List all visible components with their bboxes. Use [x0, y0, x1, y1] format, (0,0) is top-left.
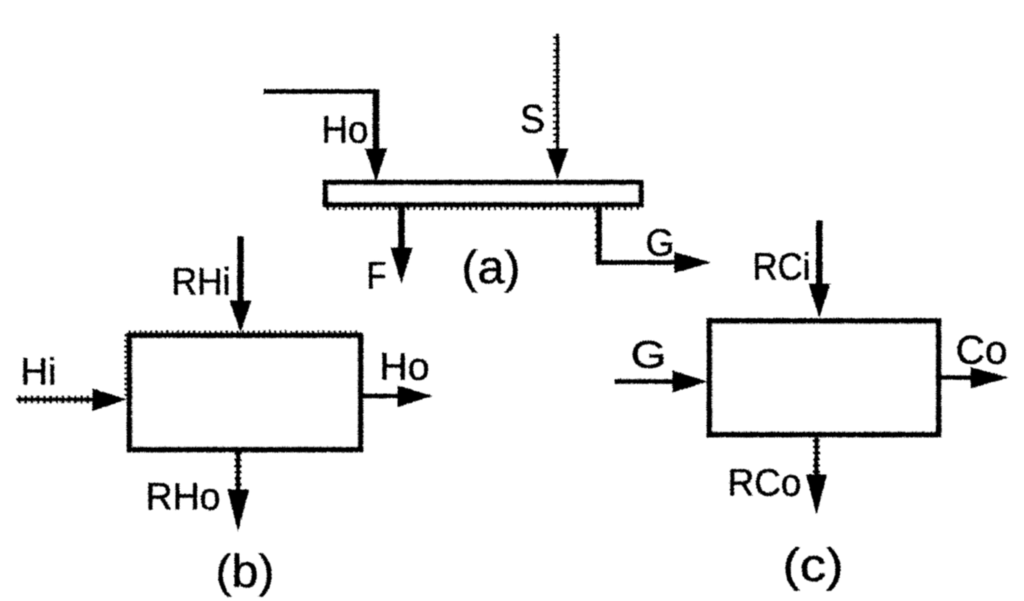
wire RCo texture	[813, 439, 820, 475]
svg-text:RHi: RHi	[171, 261, 230, 303]
arrowhead Co	[970, 367, 1008, 389]
wire G in (c)	[614, 379, 676, 384]
wire G drop texture	[594, 210, 597, 258]
arrowhead G (a)	[674, 252, 711, 273]
arrowhead G in (c)	[672, 370, 707, 392]
wire Hi horizontal	[16, 397, 95, 401]
arrowhead RHo	[227, 489, 249, 532]
svg-text:F: F	[366, 255, 386, 297]
arrowhead F	[390, 247, 412, 283]
wire RHo vertical	[236, 450, 240, 492]
wire RHi vertical	[237, 236, 243, 303]
svg-text:RHo: RHo	[145, 476, 220, 518]
wire RCi vertical	[816, 220, 822, 286]
wire feed vertical Ho (a)	[372, 89, 379, 150]
block B top edge texture	[128, 330, 360, 333]
block C (c)	[709, 321, 938, 435]
svg-text:RCi: RCi	[752, 246, 810, 288]
wire RCo vertical	[814, 437, 818, 477]
wire feed horizontal (a)	[263, 89, 378, 94]
arrowhead Hi	[92, 388, 126, 411]
svg-text:G: G	[630, 334, 666, 376]
arrowhead RHi	[229, 300, 251, 332]
svg-text:G: G	[645, 222, 674, 264]
arrowhead RCi	[808, 283, 830, 317]
wire Ho out (b)	[361, 393, 400, 398]
wire Co out (c)	[939, 375, 974, 380]
arrowhead RCo	[806, 474, 827, 515]
block B (b)	[129, 335, 360, 449]
wire RHo texture	[234, 452, 241, 490]
svg-text:(a): (a)	[461, 241, 520, 293]
wire Hi texture	[18, 395, 92, 403]
svg-text:S: S	[520, 97, 545, 141]
plate block (a)	[325, 182, 641, 204]
svg-text:(c): (c)	[782, 539, 843, 591]
wire S texture	[552, 36, 559, 146]
arrowhead Ho out (b)	[397, 385, 432, 407]
svg-text:Ho: Ho	[379, 346, 429, 388]
svg-text:Co: Co	[955, 328, 1007, 372]
wire S vertical (a)	[555, 33, 558, 149]
svg-text:(b): (b)	[215, 545, 274, 597]
plate bottom texture	[326, 206, 640, 210]
svg-text:Hi: Hi	[20, 351, 56, 393]
wire F vertical	[398, 205, 405, 250]
arrowhead S into plate	[546, 148, 568, 179]
svg-text:Ho: Ho	[321, 109, 368, 151]
block B left edge texture	[124, 334, 127, 396]
wire G drop vertical (a)	[596, 205, 602, 264]
arrowhead Ho into plate	[365, 148, 387, 181]
wire G horizontal (a)	[596, 260, 678, 265]
svg-text:RCo: RCo	[727, 462, 801, 504]
